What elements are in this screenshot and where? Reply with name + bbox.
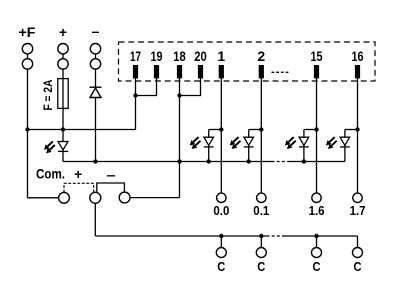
svg-text:17: 17 — [130, 48, 141, 64]
svg-text:C: C — [257, 260, 265, 274]
svg-text:1.7: 1.7 — [350, 204, 366, 218]
svg-text:+F: +F — [19, 24, 36, 40]
svg-text:1.6: 1.6 — [309, 204, 325, 218]
svg-text:2: 2 — [257, 48, 265, 64]
svg-text:C: C — [354, 260, 362, 274]
svg-text:15: 15 — [311, 48, 323, 64]
svg-text:–: – — [92, 23, 100, 39]
svg-text:F = 2A: F = 2A — [41, 79, 55, 110]
svg-text:0.1: 0.1 — [253, 204, 269, 218]
svg-text:–: – — [106, 166, 115, 182]
svg-text:C: C — [313, 260, 321, 274]
svg-text:18: 18 — [173, 48, 186, 64]
svg-text:20: 20 — [194, 48, 207, 64]
svg-text:+: + — [59, 24, 67, 40]
svg-text:19: 19 — [151, 48, 163, 64]
svg-text:+: + — [74, 166, 82, 182]
svg-text:0.0: 0.0 — [213, 204, 229, 218]
svg-text:Com.: Com. — [36, 166, 65, 182]
svg-text:16: 16 — [352, 48, 364, 64]
svg-text:1: 1 — [217, 48, 225, 64]
svg-text:C: C — [217, 260, 225, 274]
